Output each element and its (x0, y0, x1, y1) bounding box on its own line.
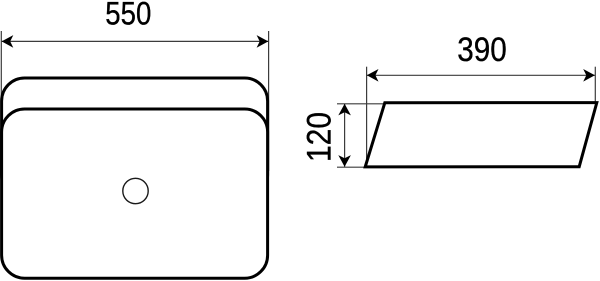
dim 550 dimension line (2, 40, 269, 42)
svg-text:390: 390 (457, 31, 507, 69)
dim 390 extension line right (594, 67, 596, 103)
dim 390 extension line left (366, 67, 368, 167)
basin inner rim (front rounded rect, top view) (2, 109, 268, 278)
dim 390 dimension line (367, 74, 595, 76)
dim 390 arrowhead left (367, 69, 379, 82)
dim 120 arrowhead up (338, 104, 351, 116)
basin outer rim (back rounded rect, top view) (2, 78, 268, 198)
svg-text:550: 550 (105, 0, 151, 31)
dim 120 dimension line (344, 104, 346, 167)
dim 550 extension line right (268, 31, 270, 171)
basin side view outline (365, 103, 597, 167)
dim 120 arrowhead down (338, 155, 351, 167)
dim 550 arrowhead right (257, 35, 269, 48)
dim 120 extension line bottom (337, 166, 366, 168)
dim 390 arrowhead right (583, 69, 595, 82)
svg-text:120: 120 (301, 112, 339, 162)
drain hole circle (123, 178, 148, 203)
dim 550 extension line left (0, 31, 2, 171)
dim 120 extension line top (337, 103, 386, 105)
dim 550 arrowhead left (2, 35, 14, 48)
